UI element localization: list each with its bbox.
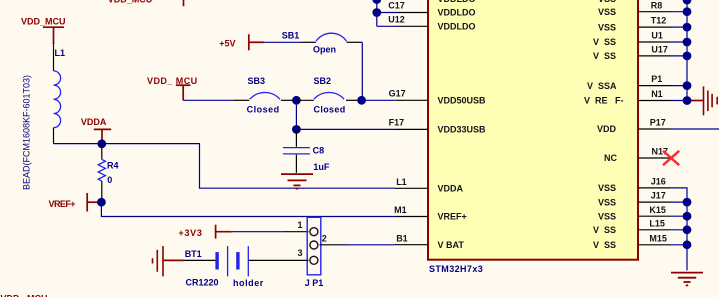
svg-text:R4: R4 <box>107 161 119 171</box>
pin P1 VSSA <box>638 85 671 87</box>
solder bridge SB1 <box>301 41 316 43</box>
svg-text:L1: L1 <box>55 48 66 58</box>
svg-text:VDDA: VDDA <box>438 184 464 194</box>
capacitor C8 <box>295 129 297 146</box>
pin G17 VDD50USB <box>395 99 428 101</box>
svg-text:VSS: VSS <box>598 0 616 4</box>
svg-text:R8: R8 <box>651 0 663 10</box>
pin M1 VREF+ <box>395 216 428 218</box>
svg-text:BEAD(FCM1608KF-601T03): BEAD(FCM1608KF-601T03) <box>22 75 32 190</box>
svg-text:1uF: 1uF <box>313 162 330 172</box>
svg-text:V SS: V SS <box>593 37 616 47</box>
pin N1 VREF- <box>638 100 671 102</box>
svg-text:VDD_MCU: VDD_MCU <box>108 0 153 4</box>
svg-text:VREF+: VREF+ <box>49 199 76 209</box>
svg-text:U1: U1 <box>651 31 663 41</box>
svg-text:2: 2 <box>322 233 327 243</box>
junction dot VDDA <box>97 139 106 148</box>
svg-text:NC: NC <box>604 153 617 163</box>
svg-text:CR1220: CR1220 <box>186 278 219 288</box>
wire F17 row <box>295 105 297 130</box>
svg-text:VSS: VSS <box>598 197 616 207</box>
wire to SB3 <box>183 99 234 101</box>
svg-text:N1: N1 <box>651 89 663 99</box>
svg-text:VDD: VDD <box>597 124 617 134</box>
svg-text:BT1: BT1 <box>185 249 202 259</box>
svg-text:C17: C17 <box>388 1 405 11</box>
svg-text:P17: P17 <box>650 118 666 128</box>
svg-text:VDDLDO: VDDLDO <box>438 0 476 4</box>
svg-text:P1: P1 <box>651 74 662 84</box>
wire +3V3 to JP1 pin1 <box>232 231 282 233</box>
junction dot top <box>372 0 381 4</box>
svg-text:+5V: +5V <box>219 39 235 49</box>
pin F17 VDD33USB <box>395 128 428 130</box>
ground symbol under C8 <box>281 174 313 189</box>
svg-text:K15: K15 <box>649 205 666 215</box>
pin L15 VSS <box>638 229 671 231</box>
op-amp U1 IC body STM32H7x3 <box>428 0 638 260</box>
svg-text:V SS: V SS <box>593 51 616 61</box>
pin T12 VSS <box>638 26 671 28</box>
svg-text:B1: B1 <box>396 233 408 243</box>
svg-text:T12: T12 <box>651 16 667 26</box>
junction dot C17 <box>372 8 381 17</box>
junction dots lower bus <box>683 198 692 250</box>
svg-text:VSS: VSS <box>598 183 616 193</box>
junction dot F17 <box>292 125 301 134</box>
junction dot SB3/SB2 <box>292 96 301 105</box>
svg-text:G17: G17 <box>389 88 406 98</box>
svg-text:L1: L1 <box>396 177 407 187</box>
svg-text:0: 0 <box>107 175 112 185</box>
svg-text:VREF+: VREF+ <box>438 212 467 222</box>
pin J16 VSS <box>638 187 671 189</box>
svg-text:V SS: V SS <box>593 240 616 250</box>
svg-text:holder: holder <box>233 278 264 288</box>
svg-text:J17: J17 <box>651 191 666 201</box>
svg-text:V SSA: V SSA <box>587 81 617 91</box>
svg-text:VDDA: VDDA <box>81 117 107 127</box>
pin P17 VDD <box>638 128 671 130</box>
svg-text:U17: U17 <box>651 45 668 55</box>
solder bridge SB3 <box>234 99 249 101</box>
pin U12 VDDLDO <box>398 25 428 27</box>
wire right VSS bus vertical <box>686 0 688 101</box>
svg-text:SB1: SB1 <box>282 31 300 41</box>
resistor R4 <box>101 144 103 160</box>
AGND symbol left of BT1 <box>153 246 164 276</box>
svg-text:V BAT: V BAT <box>438 240 465 250</box>
pin U1 VSS <box>638 41 671 43</box>
pin C17 VDDLDO <box>398 12 428 14</box>
svg-text:VDDLDO: VDDLDO <box>438 8 476 18</box>
ground symbol bottom right <box>671 273 703 286</box>
junction dot VREF+ <box>97 198 106 207</box>
svg-text:F17: F17 <box>389 118 405 128</box>
wire to G17 <box>362 99 395 101</box>
pin U17 VSS <box>638 55 671 57</box>
AGND symbol right <box>704 86 718 115</box>
wire P17 off right edge <box>671 128 719 130</box>
solder bridge SB2 <box>296 99 314 101</box>
pin M15 VSS <box>638 244 671 246</box>
svg-text:V SS: V SS <box>593 225 616 235</box>
svg-text:STM32H7x3: STM32H7x3 <box>429 264 483 274</box>
svg-text:VDD33USB: VDD33USB <box>438 125 487 135</box>
svg-text:SB2: SB2 <box>314 76 332 86</box>
svg-text:J16: J16 <box>651 177 666 187</box>
wire SB1 down to SB2 junction <box>361 42 363 100</box>
wire J16-M15 bus to ground <box>671 188 688 271</box>
svg-text:VDD50USB: VDD50USB <box>438 96 487 106</box>
svg-text:Closed: Closed <box>247 104 280 114</box>
pin K15 VSS <box>638 215 671 217</box>
svg-text:VDD_ MCU: VDD_ MCU <box>147 76 198 86</box>
wire VREF+ to M1 <box>101 202 394 216</box>
no-connect X at N17 <box>663 151 679 165</box>
svg-text:VSS: VSS <box>598 211 616 221</box>
svg-text:C8: C8 <box>313 146 325 156</box>
junction dots right bus <box>683 0 692 105</box>
svg-text:M1: M1 <box>394 205 407 215</box>
connector JP1 <box>307 217 321 274</box>
svg-text:+3V3: +3V3 <box>179 228 203 238</box>
pin J17 VSS <box>638 201 671 203</box>
pin L1 VDDA <box>395 187 428 189</box>
svg-text:VSS: VSS <box>598 7 616 17</box>
battery BT1 <box>184 259 216 261</box>
pin R8 VSS <box>638 11 671 13</box>
svg-text:L15: L15 <box>649 218 665 228</box>
svg-text:3: 3 <box>298 248 303 258</box>
svg-text:1: 1 <box>298 220 303 230</box>
wire N1 to AGND <box>691 100 704 102</box>
inductor L1 <box>53 43 55 49</box>
svg-text:J P1: J P1 <box>305 278 324 288</box>
svg-text:VSS: VSS <box>598 22 616 32</box>
svg-text:V RE F-: V RE F- <box>584 96 624 106</box>
svg-text:VDD_ MCU: VDD_ MCU <box>1 293 48 297</box>
svg-text:U12: U12 <box>388 14 405 24</box>
svg-text:Closed: Closed <box>314 104 346 114</box>
svg-text:M15: M15 <box>649 233 667 243</box>
wire stubs right bus <box>671 11 688 13</box>
pin B1 VBAT <box>395 244 428 246</box>
svg-text:VDDLDO: VDDLDO <box>438 22 476 32</box>
svg-text:SB3: SB3 <box>248 76 266 86</box>
junction dot SB2 right <box>357 96 366 105</box>
wire C17/U12 <box>376 0 378 26</box>
svg-text:VDD_MCU: VDD_MCU <box>21 17 66 27</box>
pin N17 NC <box>638 157 671 159</box>
wire VDDA row <box>54 144 395 189</box>
wire JP1 pin2 to B1 <box>320 244 347 246</box>
wire +5V to SB1 <box>264 41 300 43</box>
svg-text:Open: Open <box>313 44 336 54</box>
